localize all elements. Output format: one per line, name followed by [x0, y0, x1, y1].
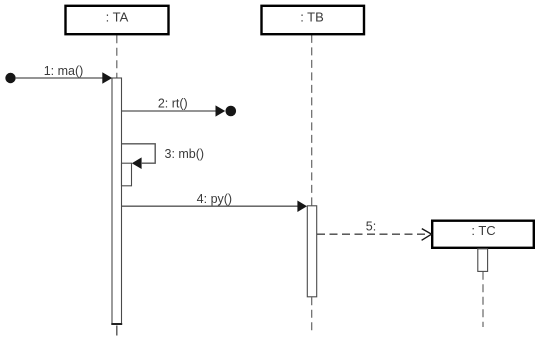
lifeline TC (dashed, below activation bar) [482, 272, 484, 327]
found message endpoint circle (message 1) [5, 73, 15, 83]
lifeline TB (dashed, below head box) [311, 35, 313, 206]
activation bar TC [478, 249, 488, 272]
message 5 open arrowhead [422, 229, 432, 241]
activation bar TA bottom edge (darker) [111, 323, 122, 325]
object head box :TC [432, 221, 534, 248]
svg-text:: TC: : TC [471, 223, 495, 238]
svg-text:2: rt(): 2: rt() [158, 97, 188, 111]
lifeline TB (segment below activation bar) [311, 297, 313, 334]
activation bar TB [307, 206, 316, 297]
lifeline TA (dashed, below head box) [116, 35, 118, 77]
svg-text:1: ma(): 1: ma() [44, 64, 84, 78]
message 4 arrowhead [297, 201, 307, 213]
nested activation bar TA (self call) [122, 163, 132, 186]
message 4 line [122, 205, 298, 207]
message 1 arrowhead [102, 72, 112, 84]
message 2 arrowhead [216, 105, 226, 116]
svg-text:5:: 5: [366, 220, 376, 234]
activation bar TA [112, 78, 122, 324]
message 1 line [16, 77, 103, 79]
svg-text:4: py(): 4: py() [197, 192, 232, 206]
message 5 dashed line [317, 233, 427, 235]
lost message endpoint circle (message 2) [226, 106, 237, 117]
object head box :TB [262, 6, 365, 34]
message 3 self-call polyline [122, 144, 155, 163]
svg-text:: TA: : TA [106, 10, 129, 25]
lifeline TA (segment below activation bar) [116, 326, 118, 337]
message 3 arrowhead [132, 157, 142, 169]
object head box :TA [66, 6, 169, 34]
message 2 line [122, 110, 216, 112]
svg-text:: TB: : TB [300, 10, 324, 25]
svg-text:3: mb(): 3: mb() [165, 147, 205, 161]
